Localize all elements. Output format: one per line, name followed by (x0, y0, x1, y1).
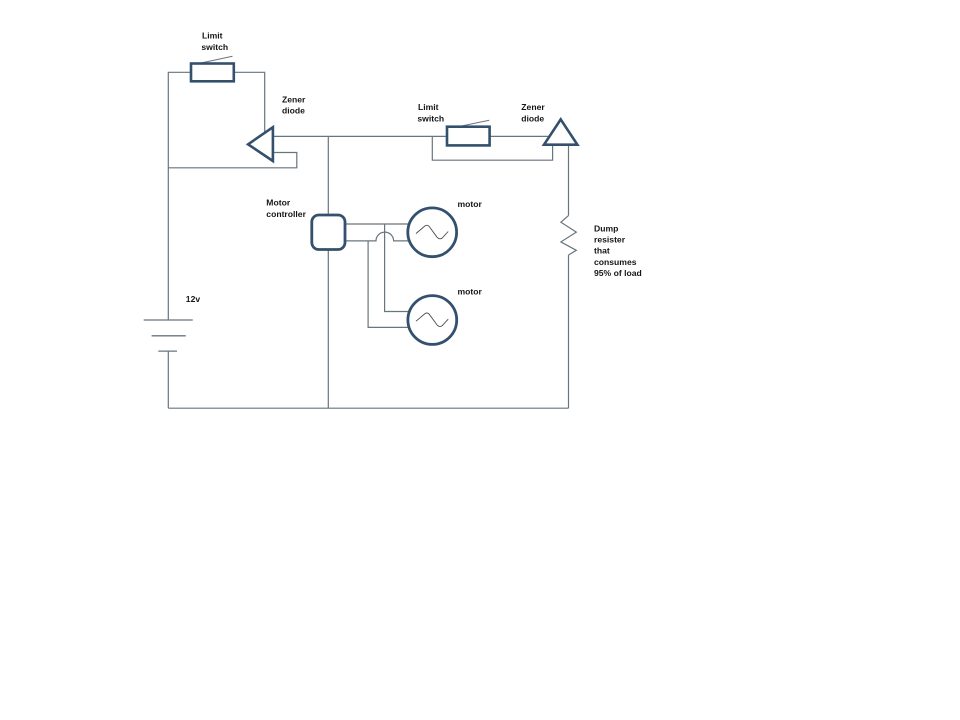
battery BT1 plate middle (152, 335, 186, 337)
svg-text:diode: diode (521, 113, 544, 123)
label: Zener diode (left) (282, 94, 306, 115)
svg-text:diode: diode (282, 106, 305, 116)
limit switch SW2 lever (right) (455, 120, 489, 127)
wire: left limit switch to zener anode drop (234, 72, 265, 132)
wire: left zener bypass step to left rail (168, 153, 296, 168)
svg-text:Dump: Dump (594, 223, 618, 233)
zener diode D2 (right, pointing up) (544, 119, 577, 144)
battery BT1 plate short (negative) (158, 350, 177, 352)
label: Zener diode (right) (521, 102, 545, 123)
motor M1 sine symbol (416, 225, 448, 239)
wire: right limit switch bypass to right zener base (432, 136, 552, 160)
wire: motor controller output B with hop over drop A, to motor 1 (345, 232, 410, 241)
motor controller U1 body (312, 215, 345, 250)
limit switch SW1 lever (left) (198, 56, 233, 64)
svg-text:switch: switch (201, 42, 228, 52)
label: Motor controller (266, 198, 306, 219)
svg-text:Limit: Limit (202, 31, 223, 41)
svg-text:that: that (594, 246, 610, 256)
svg-text:Zener: Zener (521, 102, 545, 112)
wire: main bus from left zener to right limit switch (273, 135, 447, 137)
wire: motor controller rail (vertical) (327, 136, 329, 408)
motor M2 sine symbol (416, 313, 448, 327)
resistor: dump resistor zigzag (561, 216, 576, 255)
svg-text:Limit: Limit (418, 102, 439, 112)
svg-text:motor: motor (458, 287, 483, 297)
svg-text:motor: motor (458, 199, 483, 209)
label: Limit switch (left) (201, 31, 228, 52)
svg-text:switch: switch (417, 113, 444, 123)
limit switch SW1 body (left) (191, 64, 234, 82)
svg-text:resister: resister (594, 235, 626, 245)
svg-text:consumes: consumes (594, 257, 637, 267)
wire: right limit switch to right zener (490, 135, 550, 137)
wire: left rail upper (battery + to left limit switch) (168, 72, 191, 320)
svg-text:12v: 12v (186, 294, 201, 304)
svg-text:Zener: Zener (282, 94, 306, 104)
svg-text:controller: controller (266, 209, 306, 219)
wire: right rail lower (dump resistor to bottom rail) (568, 255, 570, 408)
wire: battery negative to bottom rail (167, 351, 169, 408)
svg-text:Motor: Motor (266, 198, 291, 208)
svg-text:95% of load: 95% of load (594, 268, 642, 278)
wire: junction drop B to motor 2 lower feed (368, 241, 409, 328)
wire: bottom return rail (168, 407, 568, 409)
battery BT1 12v plate long (positive) (144, 319, 193, 321)
motor M1 circle (top) (408, 208, 457, 257)
zener diode D1 (left, pointing left) (248, 127, 273, 161)
wire: right rail upper (zener base to dump resistor) (568, 145, 570, 216)
wire: junction drop A to motor 2 upper feed (385, 224, 410, 312)
wire: motor controller output A (top) to motor 1 (345, 223, 409, 225)
label: Limit switch (right) (417, 102, 444, 123)
label: Dump resister that consumes 95% of load (594, 223, 642, 278)
motor M2 circle (bottom) (408, 296, 457, 345)
limit switch SW2 body (right) (447, 127, 490, 146)
